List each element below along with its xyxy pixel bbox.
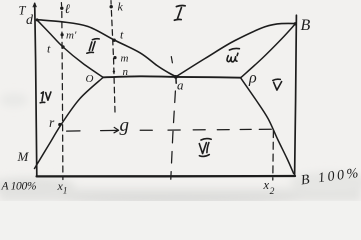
axis arrowhead (33, 3, 36, 7)
svg-text:m′: m′ (66, 30, 77, 42)
dashed composition line k (111, 11, 115, 113)
solidus A-side d to O (37, 20, 103, 77)
point l dot (60, 7, 63, 10)
roman numeral I (liquid region) (174, 6, 185, 21)
point t dot on solidus at x1 (61, 45, 64, 48)
point n dot (113, 70, 115, 72)
solidus B-side B to p (241, 24, 296, 78)
roman numeral IV (40, 92, 51, 103)
svg-text:m: m (121, 53, 129, 65)
solvus B-side p down to axis (241, 78, 294, 174)
roman numeral VI (overbar and underline) (199, 139, 211, 157)
point t dot on liquidus at k (113, 39, 116, 42)
point r dot on solvus (58, 123, 61, 126)
svg-text:k: k (118, 0, 124, 14)
svg-text:a: a (177, 78, 184, 93)
dashed horizontal tie line through r and g (67, 129, 272, 131)
dashed composition line x2 (272, 131, 275, 181)
point m dot (113, 56, 116, 59)
point k dot (110, 5, 113, 8)
eutectic isotherm O-a-p (103, 76, 241, 77)
svg-text:A 100%: A 100% (1, 181, 37, 193)
dashed vertical below a (171, 91, 176, 179)
tick above l dot (60, 3, 62, 6)
svg-text:M: M (17, 149, 30, 164)
svg-text:O: O (86, 73, 94, 85)
svg-text:g: g (120, 115, 130, 136)
roman numeral V (overbar) (273, 79, 282, 90)
roman numeral III (cursive with overbar) (227, 48, 239, 61)
dashed composition line x1 (62, 12, 63, 180)
svg-text:d: d (26, 13, 34, 28)
svg-text:n: n (123, 66, 129, 78)
arrowhead pointing right at g (114, 127, 119, 132)
right vertical axis at B (295, 15, 297, 176)
point m' dot (61, 33, 64, 36)
solvus A-side O to M (35, 78, 104, 169)
point d blob (36, 18, 39, 21)
liquidus B-side a to B (176, 23, 296, 76)
tick above a on liquidus (171, 57, 172, 63)
svg-text:r: r (49, 115, 55, 130)
svg-text:ρ: ρ (248, 70, 257, 87)
point B blob (294, 22, 297, 25)
liquidus A-side d to a (37, 20, 176, 77)
svg-text:B: B (301, 17, 311, 34)
roman numeral II (87, 39, 99, 54)
eutectic point a blob (174, 75, 178, 79)
solid stub below a (175, 77, 177, 83)
T axis (left vertical, arrow top) (35, 3, 37, 176)
svg-text:ℓ: ℓ (65, 1, 71, 16)
composition axis (bottom horizontal) (37, 175, 295, 178)
tick above k dot (110, 1, 112, 5)
